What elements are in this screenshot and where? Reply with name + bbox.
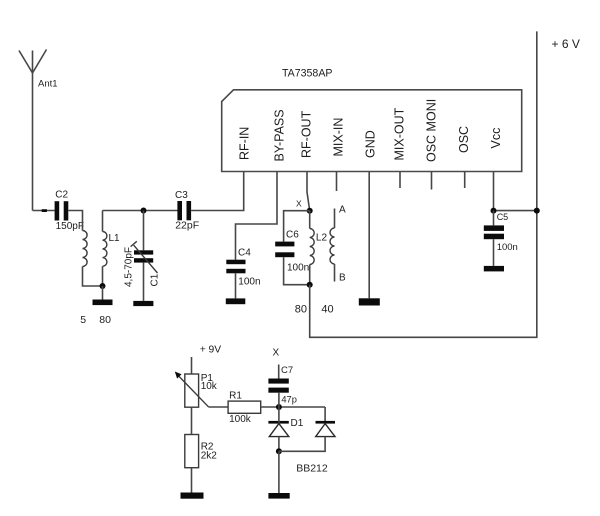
- svg-text:L1: L1: [109, 233, 121, 244]
- svg-text:C3: C3: [175, 190, 188, 201]
- svg-text:5: 5: [80, 314, 86, 326]
- svg-text:B: B: [339, 273, 346, 284]
- svg-text:BY-PASS: BY-PASS: [273, 109, 287, 161]
- svg-text:C7: C7: [281, 365, 293, 376]
- svg-text:10k: 10k: [201, 381, 218, 392]
- svg-text:TA7358AP: TA7358AP: [282, 68, 332, 80]
- svg-text:100n: 100n: [287, 262, 309, 273]
- svg-text:80: 80: [295, 303, 307, 315]
- svg-text:R1: R1: [229, 390, 242, 401]
- svg-text:A: A: [339, 204, 346, 215]
- svg-text:L2: L2: [316, 233, 328, 244]
- svg-text:C2: C2: [55, 190, 68, 201]
- svg-text:C5: C5: [497, 212, 509, 222]
- svg-text:Vcc: Vcc: [489, 128, 503, 149]
- svg-text:Ant1: Ant1: [38, 79, 58, 90]
- svg-text:4,5-70pF: 4,5-70pF: [124, 247, 135, 287]
- svg-text:RF-IN: RF-IN: [238, 127, 252, 160]
- svg-text:100k: 100k: [229, 414, 252, 425]
- svg-text:+ 9V: + 9V: [200, 344, 222, 355]
- svg-text:C6: C6: [286, 230, 299, 241]
- svg-text:C1: C1: [150, 273, 161, 286]
- svg-text:100n: 100n: [238, 276, 260, 287]
- svg-text:X: X: [273, 348, 280, 359]
- svg-text:C4: C4: [238, 247, 251, 258]
- svg-text:RF-OUT: RF-OUT: [300, 110, 314, 158]
- svg-text:2k2: 2k2: [201, 451, 218, 462]
- svg-text:MIX-OUT: MIX-OUT: [393, 107, 407, 160]
- svg-text:150pF: 150pF: [56, 221, 84, 232]
- svg-text:40: 40: [321, 303, 333, 315]
- svg-text:D1: D1: [291, 418, 304, 429]
- svg-text:BB212: BB212: [296, 463, 328, 475]
- svg-text:OSC MONI: OSC MONI: [424, 99, 438, 162]
- svg-text:80: 80: [99, 314, 111, 326]
- svg-text:+ 6 V: + 6 V: [552, 37, 580, 51]
- svg-text:47p: 47p: [281, 395, 297, 405]
- svg-text:100n: 100n: [497, 242, 518, 253]
- svg-text:X: X: [296, 198, 302, 208]
- svg-text:OSC: OSC: [457, 126, 471, 153]
- svg-text:GND: GND: [364, 130, 378, 158]
- svg-text:MIX-IN: MIX-IN: [332, 118, 346, 157]
- svg-text:22pF: 22pF: [175, 219, 199, 231]
